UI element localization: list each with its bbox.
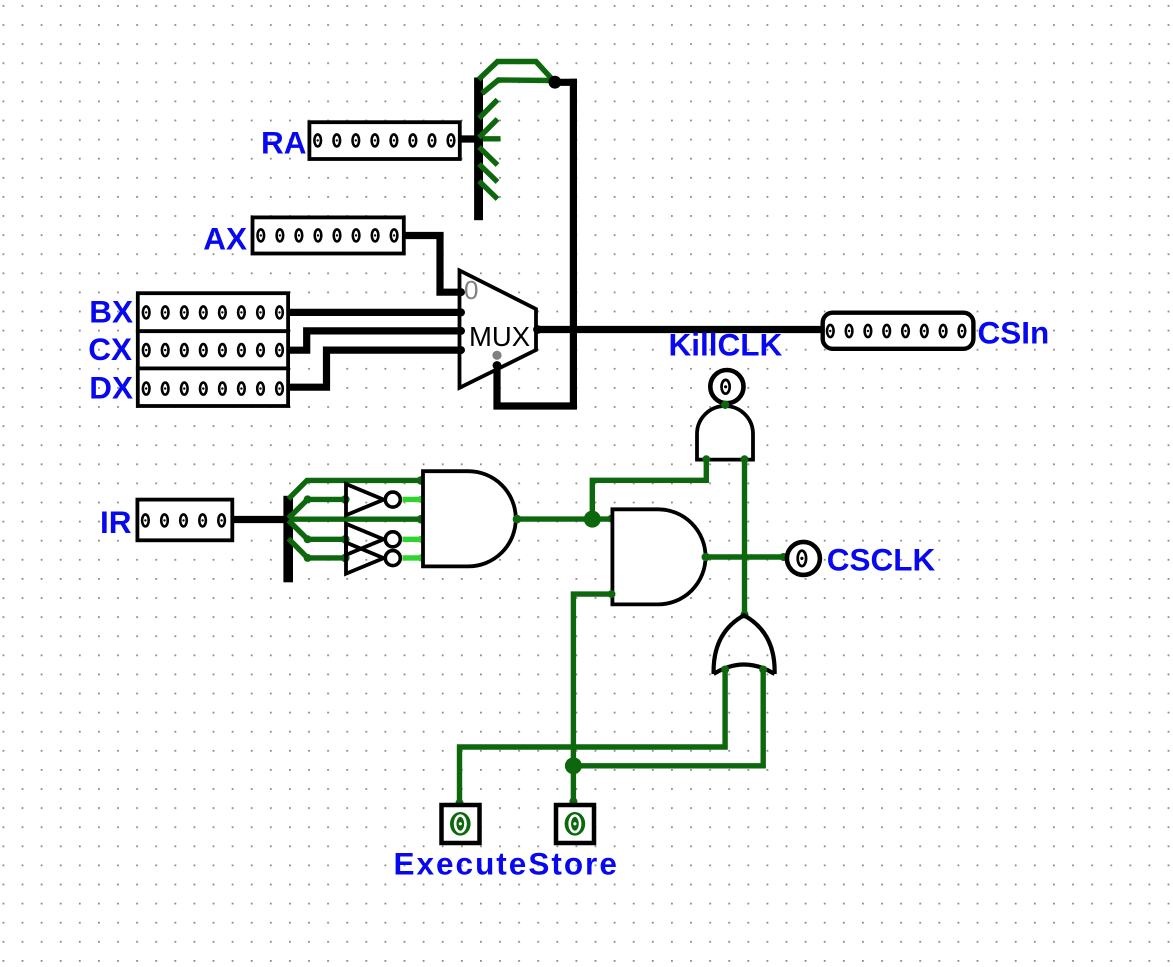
- svg-text:AX: AX: [203, 221, 247, 257]
- svg-text:ExecuteStore: ExecuteStore: [394, 846, 619, 882]
- wire node A to feedback bus: [555, 79, 577, 86]
- wire MUX output to CSIn: [536, 326, 823, 333]
- AND gate U4: [612, 509, 705, 604]
- wire node C to U5 right input: [573, 669, 763, 766]
- OR gate U5 (up): [714, 615, 775, 674]
- MUX input endpoint dots: [457, 288, 465, 296]
- wire KillCLK pin stub: [721, 401, 729, 409]
- splitter S2 leg bit3 / wire to NOT G1: [288, 499, 345, 518]
- wire U5 right input riser: [759, 666, 767, 674]
- wire IR output to splitter: [232, 516, 285, 523]
- AND gate U3 (5-input): [423, 471, 516, 566]
- wire G3 out (high): [403, 555, 422, 560]
- splitter S2 leg bit0 / wire to NOT G3: [288, 539, 345, 558]
- multiplexer U1: [460, 270, 537, 387]
- register AX: [253, 217, 404, 253]
- register CX: [138, 331, 288, 368]
- output pin CSCLK: [787, 542, 820, 575]
- register RA: [309, 122, 459, 159]
- node C junction (Store net): [565, 757, 582, 774]
- wire U3 output to node B: [516, 516, 593, 521]
- splitter S1 leg stub b3: [483, 136, 501, 141]
- wire U4 output to CSCLK pin: [706, 554, 785, 559]
- svg-text:DX: DX: [89, 370, 133, 406]
- splitter S1 leg stub b2: [479, 147, 498, 165]
- splitter S1 leg stub b0: [479, 181, 498, 199]
- splitter S1 leg stub b1: [479, 164, 498, 182]
- register BX: [138, 293, 288, 331]
- splitter S2 leg bit4 / wire to U3 input 1: [288, 480, 421, 499]
- svg-text:IR: IR: [100, 504, 132, 540]
- wire MUX select endpoint: [493, 361, 502, 370]
- wire CX to MUX in2: [288, 331, 459, 350]
- splitter S2 spine: [283, 496, 293, 583]
- svg-text:KillCLK: KillCLK: [669, 327, 783, 363]
- wire Execute net: [460, 669, 726, 803]
- wire RA output to splitter: [460, 135, 476, 142]
- wire U4 lower input from Store net: [573, 594, 611, 801]
- NOT gate G3: [346, 543, 400, 574]
- svg-text:CSCLK: CSCLK: [827, 542, 936, 578]
- svg-text:CX: CX: [88, 331, 132, 367]
- output pin KillCLK: [710, 370, 743, 403]
- output pin CSIn (8-bit): [823, 313, 974, 349]
- input pin Execute: [442, 805, 480, 843]
- wire DX to MUX in3: [288, 350, 459, 387]
- wire node B up to U2 left input: [592, 459, 706, 519]
- wire OR U5 output up to U2 right input: [742, 459, 747, 615]
- wire AX to MUX in0: [404, 236, 460, 293]
- wire BX to MUX in1: [288, 309, 459, 316]
- splitter S1 leg bit7 (wire to node A): [479, 62, 555, 83]
- svg-text:CSIn: CSIn: [978, 315, 1050, 351]
- NOT gate G1: [346, 484, 400, 515]
- register IR: [137, 500, 232, 541]
- svg-text:BX: BX: [89, 294, 133, 330]
- splitter S1 leg bit6 (wire to node A): [482, 80, 553, 94]
- wire G2 out (high): [403, 537, 422, 542]
- node B junction: [584, 511, 601, 528]
- svg-text:RA: RA: [261, 125, 307, 161]
- splitter S1 spine: [474, 78, 483, 221]
- svg-text:0: 0: [464, 275, 478, 305]
- input pin Store: [556, 805, 594, 843]
- wire node B to U4 input 1: [592, 516, 611, 521]
- AND gate U2 (up): [697, 406, 753, 460]
- wire feedback bus vertical: [497, 79, 573, 406]
- wire G1 out (high): [403, 497, 422, 502]
- svg-text:MUX: MUX: [469, 321, 530, 352]
- splitter S2 leg bit2 / wire to U3 input 3: [290, 517, 422, 522]
- wire U5 left input riser: [721, 666, 729, 674]
- splitter S2 leg bit1 / wire to NOT G2: [288, 520, 345, 539]
- node A junction: [549, 76, 562, 89]
- NOT gate G2: [346, 524, 400, 555]
- splitter S1 leg stub b5: [479, 100, 498, 119]
- splitter S1 leg stub b4: [479, 119, 498, 138]
- register DX: [138, 368, 288, 406]
